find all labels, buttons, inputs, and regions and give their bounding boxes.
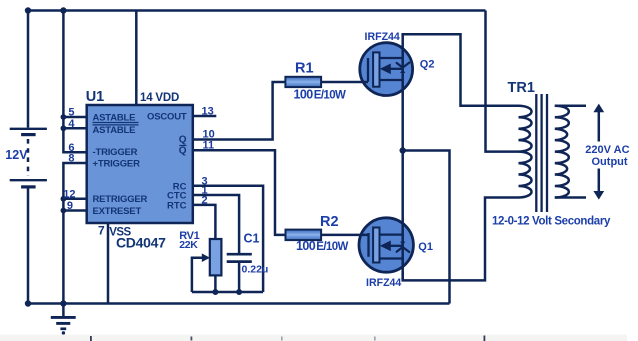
wire top rail +12V bbox=[28, 9, 486, 12]
battery BT1 cell1 short plate bbox=[21, 133, 35, 136]
svg-text:EXTRESET: EXTRESET bbox=[93, 206, 142, 217]
wire pin10 Q to R1 bbox=[193, 82, 286, 140]
wire pin14 VDD drop bbox=[135, 11, 138, 106]
wire secondary bottom lead bbox=[555, 196, 586, 199]
Q2 body diode bbox=[397, 63, 410, 73]
svg-text:4: 4 bbox=[68, 118, 75, 130]
svg-text:22K: 22K bbox=[179, 239, 198, 251]
wire Q1 drain to primary bottom tap bbox=[403, 198, 519, 281]
battery BT1 cell2 short plate bbox=[21, 185, 35, 188]
node RV1 bottom junction bbox=[212, 289, 218, 295]
svg-text:14 VDD: 14 VDD bbox=[140, 92, 179, 104]
svg-text:U1: U1 bbox=[86, 89, 105, 105]
resistor RV1 potentiometer body bbox=[210, 239, 222, 275]
U1 Q-bar overline bbox=[179, 145, 186, 147]
wire Q2 drain to primary top tap bbox=[403, 34, 519, 105]
battery BT1 dashed cells link bbox=[27, 139, 30, 176]
svg-text:100E/10W: 100E/10W bbox=[296, 239, 349, 253]
wire Q2 source to Q1 source vertical bbox=[401, 34, 404, 280]
wire pin11 Qbar to R2 bbox=[193, 150, 286, 235]
wire RV1 bottom lead bbox=[214, 275, 217, 292]
transformer TR1 core bbox=[536, 94, 547, 212]
wire VDD net to pins 5 4 6 bbox=[63, 11, 86, 153]
U1 astable-bar overline bbox=[93, 124, 139, 126]
wire RV1 wiper bbox=[192, 258, 204, 292]
transistor Q1 IRFZ44 circle bbox=[359, 218, 413, 272]
RV1 wiper arrowhead bbox=[202, 253, 210, 262]
battery BT1 cell2 long plate bbox=[10, 179, 47, 181]
wire timing bottom rail bbox=[192, 291, 263, 294]
IC U1 CD4047 body bbox=[87, 105, 193, 223]
svg-text:C1: C1 bbox=[244, 232, 260, 246]
svg-text:12-0-12 Volt Secondary: 12-0-12 Volt Secondary bbox=[492, 216, 611, 228]
svg-text:220V AC: 220V AC bbox=[585, 144, 629, 156]
Q2 gate electrode bbox=[367, 58, 369, 82]
wire +12V to primary center tap bbox=[486, 11, 519, 152]
transistor Q2 IRFZ44 circle bbox=[360, 43, 413, 96]
Q2 gate plate bbox=[373, 52, 379, 86]
svg-text:IRFZ44: IRFZ44 bbox=[365, 31, 400, 43]
svg-text:8: 8 bbox=[68, 153, 74, 165]
wire C1 bottom lead bbox=[238, 263, 241, 292]
battery BT1 positive wire bbox=[27, 11, 30, 128]
wire pin1 CTC to C1 bbox=[193, 195, 239, 253]
wire pin7 VSS drop bbox=[107, 223, 110, 304]
Q1 gate electrode bbox=[367, 233, 369, 257]
Q1 body arrowhead bbox=[380, 241, 391, 252]
svg-text:ASTABLE: ASTABLE bbox=[93, 125, 136, 136]
node top rail VDD-net junction bbox=[60, 7, 66, 13]
svg-text:CD4047: CD4047 bbox=[116, 234, 166, 250]
svg-text:-TRIGGER: -TRIGGER bbox=[93, 147, 138, 158]
svg-text:12: 12 bbox=[63, 188, 75, 200]
svg-text:5: 5 bbox=[68, 106, 74, 118]
resistor R1 body bbox=[285, 77, 321, 87]
resistor R2 body bbox=[286, 230, 322, 241]
node top rail battery junction bbox=[25, 7, 31, 13]
capacitor C1 bottom plate bbox=[227, 260, 252, 263]
wire ground rail bbox=[28, 302, 450, 305]
svg-text:9: 9 bbox=[67, 200, 73, 212]
svg-text:7: 7 bbox=[98, 224, 105, 238]
battery BT1 cell1 long plate bbox=[10, 128, 47, 130]
svg-text:+TRIGGER: +TRIGGER bbox=[93, 158, 141, 169]
svg-text:Q: Q bbox=[179, 135, 187, 146]
capacitor C1 top plate bbox=[227, 253, 252, 256]
ground bbox=[51, 304, 76, 335]
svg-text:Q1: Q1 bbox=[418, 241, 433, 253]
node pin9 junction bbox=[61, 208, 67, 214]
node pin12 junction bbox=[61, 196, 67, 202]
svg-text:TR1: TR1 bbox=[508, 80, 535, 96]
output voltage arrow bbox=[593, 104, 604, 200]
wire source junction to ground rail bbox=[403, 151, 450, 304]
Q2 source bar bbox=[380, 79, 403, 81]
battery BT1 negative wire bbox=[27, 189, 30, 304]
svg-text:Q2: Q2 bbox=[420, 59, 435, 71]
Q1 body arrow line bbox=[391, 245, 403, 247]
svg-text:100E/10W: 100E/10W bbox=[294, 88, 347, 102]
svg-text:12V: 12V bbox=[5, 148, 28, 162]
bottom page strip bbox=[0, 335, 627, 341]
svg-text:Q: Q bbox=[179, 146, 187, 157]
Q2 drain bar bbox=[380, 57, 403, 59]
wire pin3 RC to timing rail bbox=[193, 186, 263, 292]
transformer TR1 primary winding bbox=[519, 106, 532, 198]
wire R2 to Q1 gate bbox=[321, 234, 368, 237]
svg-text:OSCOUT: OSCOUT bbox=[147, 112, 187, 123]
node ground rail symbol junction bbox=[60, 300, 66, 306]
wire ground net to pins 8 12 9 bbox=[63, 163, 86, 304]
wire pin13 stub bbox=[193, 115, 217, 118]
node pin5 junction bbox=[61, 114, 67, 120]
svg-text:RTC: RTC bbox=[167, 200, 187, 211]
Q2 body arrowhead bbox=[380, 64, 391, 75]
svg-text:RETRIGGER: RETRIGGER bbox=[93, 194, 148, 205]
node C1 bottom junction bbox=[236, 289, 242, 295]
wire secondary top lead bbox=[555, 104, 586, 107]
svg-text:R2: R2 bbox=[320, 214, 339, 230]
node ground rail battery junction bbox=[25, 300, 31, 306]
svg-text:Output: Output bbox=[592, 156, 628, 168]
Q1 gate plate bbox=[373, 228, 379, 263]
wire pin2 RTC to RV1 bbox=[193, 205, 216, 239]
node pin4 junction bbox=[61, 125, 67, 131]
svg-text:R1: R1 bbox=[295, 61, 314, 77]
svg-text:IRFZ44: IRFZ44 bbox=[366, 277, 401, 289]
Q1 drain bar bbox=[380, 257, 403, 259]
U1 astable underline bbox=[93, 122, 139, 124]
transformer TR1 secondary winding bbox=[555, 106, 569, 198]
wire R1 to Q2 gate bbox=[321, 81, 368, 84]
Q1 body diode bbox=[397, 242, 410, 252]
Q2 body arrow line bbox=[391, 68, 403, 70]
Q1 source bar bbox=[380, 233, 403, 235]
svg-text:0.22u: 0.22u bbox=[242, 263, 269, 275]
node source junction bbox=[400, 147, 406, 153]
